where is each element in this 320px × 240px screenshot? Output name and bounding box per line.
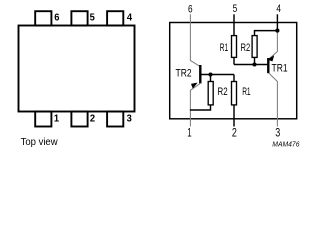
resistor R2 (TR2) bottom lead to emitter wire [190, 106, 211, 111]
wire resistor R2 (TR1) top to pin 4 node [255, 31, 278, 35]
transistor TR1 collector (wire to pin 3) [269, 73, 278, 127]
wire pin 6 to TR2 collector [190, 14, 200, 66]
svg-text:2: 2 [232, 126, 237, 139]
transistor TR1 emitter arrowhead [268, 56, 274, 61]
wire resistor R1 (TR2) to pin 2 [233, 106, 235, 127]
wire pin 4 to TR1 emitter [276, 14, 278, 30]
svg-text:1: 1 [54, 114, 59, 125]
resistor R1 (TR2) body [232, 82, 237, 105]
svg-text:6: 6 [54, 13, 59, 24]
pin 2 stub (package, bottom-middle) [71, 112, 87, 127]
wire TR1 emitter branch [269, 31, 278, 59]
resistor R1 (TR1 base series) body [232, 36, 237, 58]
svg-text:R1: R1 [242, 86, 250, 98]
svg-text:R1: R1 [220, 42, 228, 54]
svg-text:TR2: TR2 [176, 68, 192, 80]
resistor R1 (TR2 base series), top lead [233, 75, 235, 82]
wire TR1 base [234, 64, 267, 66]
pin 1 stub (package, bottom-left) [35, 112, 51, 127]
wire pin 5 to resistor R1 (TR1) [233, 14, 235, 35]
svg-text:5: 5 [90, 13, 95, 24]
svg-text:1: 1 [187, 126, 191, 139]
svg-text:4: 4 [127, 13, 132, 24]
svg-text:3: 3 [127, 114, 132, 125]
node junction pin 4 / R2 (TR1) [275, 29, 279, 33]
schematic enclosure box [170, 23, 297, 119]
resistor R1 (TR1) bottom lead [233, 58, 235, 65]
pin 5 stub (package, top-middle) [71, 11, 87, 25]
svg-text:2: 2 [90, 114, 95, 125]
svg-text:3: 3 [275, 126, 280, 139]
svg-text:R2: R2 [241, 42, 251, 54]
transistor TR2 emitter arrowhead [191, 83, 197, 88]
pin 6 stub (package, top-left) [35, 11, 51, 25]
resistor R2 (TR1) bottom lead [254, 58, 256, 65]
svg-text:6: 6 [188, 3, 193, 15]
svg-text:4: 4 [276, 3, 281, 15]
wire TR2 base to resistors [201, 74, 234, 76]
pin 3 stub (package, bottom-right) [107, 112, 123, 127]
package body (top view outline) [19, 26, 135, 112]
node junction R2 (TR1) / base wire [252, 62, 256, 66]
svg-text:TR1: TR1 [272, 63, 288, 75]
transistor TR2 base bar [199, 65, 201, 84]
transistor TR2 emitter (arrow to pin 1) [190, 83, 201, 127]
transistor TR1 base bar [267, 58, 269, 73]
resistor R2 (TR2) body [208, 82, 213, 105]
svg-text:R2: R2 [218, 86, 228, 98]
node junction at TR2 base / R2 [208, 72, 212, 76]
resistor R2 (TR1 base-emitter) body [252, 36, 257, 58]
resistor R2 (TR2 base-emitter), top lead [210, 75, 212, 82]
svg-text:MAM476: MAM476 [272, 140, 300, 149]
svg-text:Top view: Top view [21, 137, 58, 148]
pin 4 stub (package, top-right) [107, 11, 123, 25]
svg-text:5: 5 [233, 3, 238, 15]
